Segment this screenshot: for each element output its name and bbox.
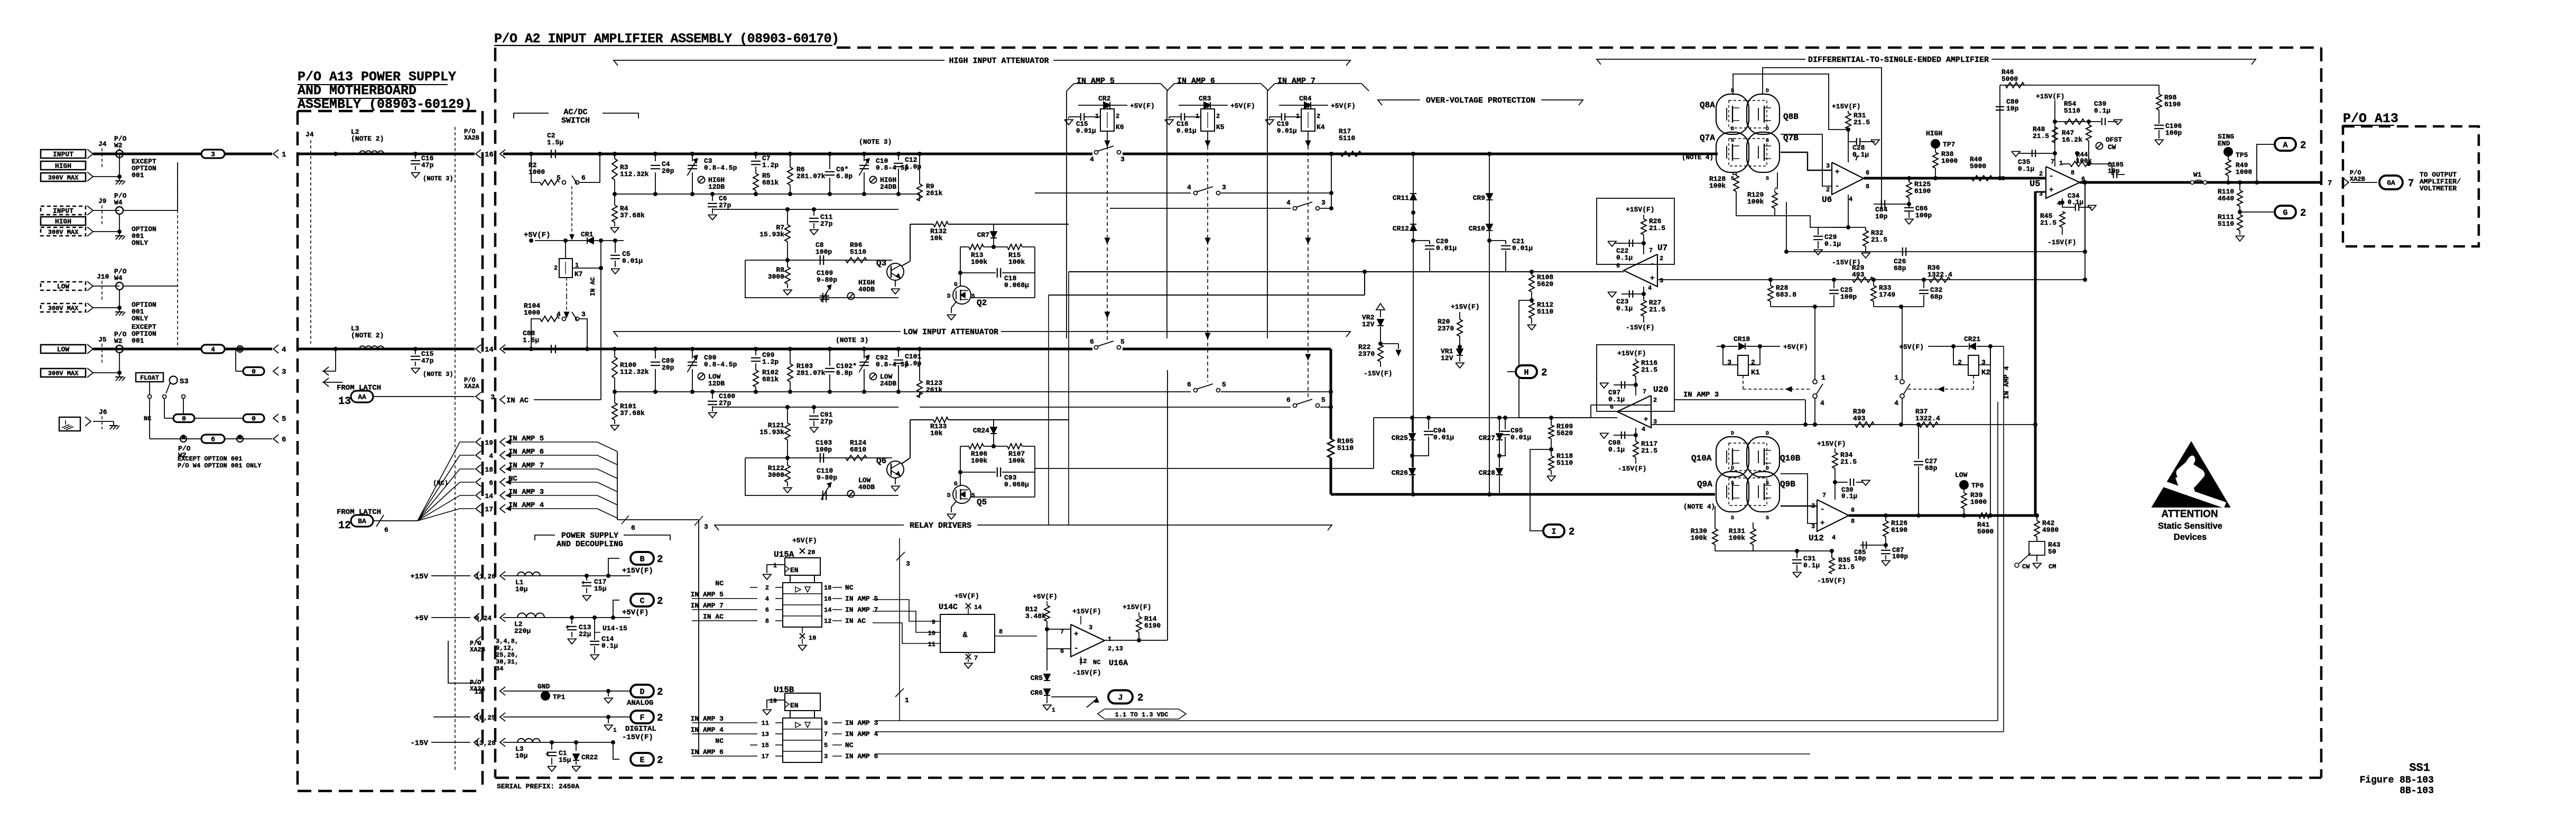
svg-text:FLOAT: FLOAT <box>140 374 159 382</box>
svg-text:6: 6 <box>765 606 769 614</box>
svg-text:1: 1 <box>1095 113 1099 120</box>
svg-text:+5V(F): +5V(F) <box>1130 102 1155 110</box>
svg-text:+5V(F): +5V(F) <box>622 609 648 617</box>
svg-text:D: D <box>947 293 951 300</box>
svg-text:8: 8 <box>999 628 1003 636</box>
svg-text:0.01μ: 0.01μ <box>1512 244 1533 252</box>
svg-text:S: S <box>1766 138 1769 144</box>
svg-text:6190: 6190 <box>2164 100 2181 108</box>
svg-text:0.8-4.5p: 0.8-4.5p <box>704 164 737 172</box>
svg-text:G: G <box>2283 208 2287 217</box>
svg-text:5110: 5110 <box>850 248 866 256</box>
svg-text:3: 3 <box>906 560 910 568</box>
svg-text:6: 6 <box>1090 338 1094 346</box>
svg-text:1: 1 <box>773 562 777 569</box>
svg-text:17: 17 <box>762 753 769 760</box>
svg-text:3: 3 <box>1321 199 1326 207</box>
svg-text:10p: 10p <box>2108 168 2120 175</box>
svg-text:7: 7 <box>1822 492 1826 499</box>
svg-text:7: 7 <box>824 731 828 738</box>
svg-text:AC/DC: AC/DC <box>563 108 587 117</box>
svg-text:TP5: TP5 <box>2236 151 2248 159</box>
svg-text:8: 8 <box>1866 183 1869 190</box>
svg-text:6: 6 <box>1851 507 1855 514</box>
svg-text:681k: 681k <box>762 375 779 383</box>
svg-text:100k: 100k <box>1747 198 1764 206</box>
svg-text:AND MOTHERBOARD: AND MOTHERBOARD <box>298 83 416 98</box>
svg-text:8: 8 <box>2071 169 2074 177</box>
svg-text:D: D <box>1731 88 1734 94</box>
svg-text:SERIAL PREFIX: 2450A: SERIAL PREFIX: 2450A <box>497 783 579 790</box>
svg-text:NC: NC <box>845 741 854 749</box>
svg-text:-: - <box>1074 645 1078 653</box>
svg-text:INPUT: INPUT <box>53 151 73 159</box>
svg-text:Q10B: Q10B <box>1780 454 1801 463</box>
svg-text:10p: 10p <box>2006 105 2019 113</box>
svg-text:3: 3 <box>1089 624 1092 631</box>
svg-text:6: 6 <box>1610 403 1614 411</box>
svg-text:CM: CM <box>2049 563 2056 570</box>
svg-text:GND: GND <box>538 683 550 691</box>
svg-text:ANALOG: ANALOG <box>627 699 653 707</box>
svg-text:TP7: TP7 <box>1943 141 1955 149</box>
svg-text:5110: 5110 <box>1337 444 1354 452</box>
svg-text:I: I <box>1551 527 1556 536</box>
svg-text:7: 7 <box>1649 247 1653 254</box>
svg-text:S: S <box>1766 176 1769 182</box>
svg-text:2: 2 <box>1569 526 1574 538</box>
svg-text:2: 2 <box>657 686 663 698</box>
svg-text:0.1μ: 0.1μ <box>1608 395 1625 403</box>
svg-text:-15V(F): -15V(F) <box>622 733 653 742</box>
svg-text:OVER-VOLTAGE PROTECTION: OVER-VOLTAGE PROTECTION <box>1426 96 1535 105</box>
svg-text:40DB: 40DB <box>858 483 875 491</box>
svg-text:CR27: CR27 <box>1479 434 1495 442</box>
svg-text:-15V(F): -15V(F) <box>1817 577 1846 585</box>
svg-text:12: 12 <box>1079 658 1087 665</box>
svg-text:27p: 27p <box>719 201 731 209</box>
svg-text:(NOTE 3): (NOTE 3) <box>423 371 453 378</box>
svg-text:493: 493 <box>1853 415 1866 422</box>
svg-text:11: 11 <box>928 641 935 648</box>
svg-text:1000: 1000 <box>2236 168 2252 176</box>
svg-text:D: D <box>1731 126 1734 132</box>
svg-text:+: + <box>2049 186 2053 195</box>
svg-text:100p: 100p <box>816 446 832 454</box>
svg-text:1: 1 <box>1894 374 1898 382</box>
svg-text:+5V(F): +5V(F) <box>1033 593 1058 601</box>
svg-text:1.5μ: 1.5μ <box>547 139 563 146</box>
svg-text:7: 7 <box>974 655 978 662</box>
svg-text:XA2B: XA2B <box>464 134 479 142</box>
svg-text:20p: 20p <box>662 167 674 175</box>
svg-text:3: 3 <box>1660 277 1663 284</box>
svg-text:3: 3 <box>704 523 708 531</box>
svg-text:+15V(F): +15V(F) <box>1451 303 1480 311</box>
svg-text:21.5: 21.5 <box>1649 306 1665 314</box>
svg-text:HIGH INPUT ATTENUATOR: HIGH INPUT ATTENUATOR <box>949 57 1049 66</box>
svg-text:8B-103: 8B-103 <box>2399 786 2434 796</box>
svg-text:LOW: LOW <box>57 346 70 354</box>
svg-text:3: 3 <box>1222 183 1226 191</box>
svg-text:12V: 12V <box>1362 320 1375 328</box>
svg-text:S: S <box>1731 516 1734 521</box>
svg-text:40DB: 40DB <box>858 286 875 293</box>
svg-text:ATTENTION: ATTENTION <box>2161 509 2218 520</box>
svg-text:P/O W4 OPTION 001 ONLY: P/O W4 OPTION 001 ONLY <box>178 462 262 470</box>
svg-text:ONLY: ONLY <box>132 315 148 323</box>
svg-text:IN AC: IN AC <box>845 617 866 625</box>
svg-text:18: 18 <box>485 466 493 474</box>
svg-text:IN AMP 3: IN AMP 3 <box>845 719 878 727</box>
svg-text:-15V: -15V <box>410 739 428 748</box>
svg-text:21.5: 21.5 <box>1641 447 1657 455</box>
svg-text:14: 14 <box>824 606 831 614</box>
svg-text:HIGH: HIGH <box>1926 130 1942 137</box>
svg-text:281.07k: 281.07k <box>796 172 826 180</box>
svg-text:21.5: 21.5 <box>1854 118 1870 126</box>
svg-text:7: 7 <box>1643 388 1646 395</box>
svg-text:J6: J6 <box>99 408 107 416</box>
svg-text:HIGH: HIGH <box>55 162 71 170</box>
svg-text:1: 1 <box>282 151 286 159</box>
svg-text:1.0p: 1.0p <box>905 360 921 367</box>
svg-text:+15V(F): +15V(F) <box>1617 349 1646 357</box>
svg-text:U12: U12 <box>1809 533 1824 543</box>
svg-text:CR25: CR25 <box>1392 434 1408 442</box>
svg-text:+5V(F): +5V(F) <box>1331 102 1356 110</box>
svg-text:VOLTMETER: VOLTMETER <box>2420 185 2457 192</box>
svg-text:CR4: CR4 <box>1299 95 1312 103</box>
svg-text:IN AC: IN AC <box>703 613 724 621</box>
svg-text:S: S <box>971 293 975 300</box>
svg-text:TP6: TP6 <box>1971 482 1984 490</box>
svg-text:2: 2 <box>657 712 663 724</box>
svg-text:RELAY DRIVERS: RELAY DRIVERS <box>910 521 971 530</box>
svg-text:IN AMP 7: IN AMP 7 <box>1277 77 1315 86</box>
svg-text:POWER SUPPLY: POWER SUPPLY <box>561 531 618 540</box>
svg-text:281.07k: 281.07k <box>796 369 826 377</box>
svg-text:+5V(F): +5V(F) <box>524 231 550 240</box>
svg-text:100k: 100k <box>2076 158 2092 165</box>
svg-text:2: 2 <box>1541 367 1547 379</box>
svg-text:13: 13 <box>338 395 351 408</box>
svg-text:-: - <box>1835 182 1839 191</box>
svg-text:0: 0 <box>182 415 186 423</box>
svg-text:112.32k: 112.32k <box>620 368 649 376</box>
svg-text:0: 0 <box>252 368 256 376</box>
svg-text:2: 2 <box>1751 358 1755 366</box>
svg-text:12: 12 <box>338 520 351 532</box>
svg-text:HIGH: HIGH <box>55 218 71 226</box>
svg-text:3,4,8,: 3,4,8, <box>496 638 518 645</box>
svg-text:4: 4 <box>1187 183 1191 191</box>
svg-text:G: G <box>954 282 958 288</box>
svg-text:DIFFERENTIAL-TO-SINGLE-ENDED A: DIFFERENTIAL-TO-SINGLE-ENDED AMPLIFIER <box>1808 56 1989 65</box>
svg-text:D: D <box>1731 466 1734 472</box>
svg-text:2: 2 <box>1116 113 1119 120</box>
svg-text:34: 34 <box>496 665 503 673</box>
svg-text:300V MAX: 300V MAX <box>48 305 79 312</box>
svg-text:6.8p: 6.8p <box>836 369 853 377</box>
svg-text:-: - <box>1820 505 1824 514</box>
svg-text:U14C: U14C <box>939 603 958 612</box>
svg-text:15: 15 <box>762 742 769 749</box>
svg-text:(NC): (NC) <box>433 480 448 487</box>
svg-text:17: 17 <box>485 505 493 513</box>
svg-text:100p: 100p <box>1892 553 1908 560</box>
svg-text:F: F <box>640 713 644 722</box>
svg-text:261k: 261k <box>926 386 942 394</box>
svg-text:Static Sensitive: Static Sensitive <box>2158 521 2222 531</box>
svg-text:A: A <box>2283 141 2287 150</box>
svg-text:Q6: Q6 <box>876 456 886 466</box>
svg-text:+15V(F): +15V(F) <box>622 567 653 575</box>
svg-text:300V MAX: 300V MAX <box>48 370 79 377</box>
svg-text:1322.4: 1322.4 <box>1928 271 1952 279</box>
svg-text:P/O A13 POWER SUPPLY: P/O A13 POWER SUPPLY <box>298 69 456 85</box>
svg-text:21.5: 21.5 <box>1838 563 1855 571</box>
svg-text:5: 5 <box>557 174 561 182</box>
svg-text:U6: U6 <box>1822 195 1832 205</box>
svg-text:0: 0 <box>252 415 256 423</box>
svg-text:1: 1 <box>1821 374 1826 382</box>
svg-text:0.1μ: 0.1μ <box>2068 199 2083 206</box>
svg-text:1: 1 <box>613 728 617 734</box>
svg-text:19: 19 <box>485 439 493 447</box>
svg-text:+15V(F): +15V(F) <box>2036 93 2065 100</box>
svg-text:IN AMP 5: IN AMP 5 <box>691 591 724 599</box>
svg-text:+: + <box>566 624 569 631</box>
svg-text:+5V(F): +5V(F) <box>792 537 817 545</box>
svg-text:Q3: Q3 <box>876 259 886 268</box>
svg-text:15μ: 15μ <box>559 756 571 764</box>
svg-text:C19: C19 <box>1277 121 1289 128</box>
svg-text:2: 2 <box>1826 186 1830 194</box>
svg-text:CR7: CR7 <box>977 231 989 239</box>
svg-text:5000: 5000 <box>2002 75 2018 83</box>
svg-text:5: 5 <box>1222 381 1226 389</box>
svg-text:2: 2 <box>2300 140 2306 151</box>
svg-text:IN AMP 3: IN AMP 3 <box>1683 391 1719 399</box>
svg-text:2: 2 <box>2039 170 2043 178</box>
svg-text:IN AC: IN AC <box>589 277 597 296</box>
svg-text:6190: 6190 <box>1891 526 1907 534</box>
svg-text:21.5: 21.5 <box>1641 366 1657 374</box>
svg-text:3000: 3000 <box>768 273 784 281</box>
svg-text:CW: CW <box>2022 563 2030 570</box>
svg-text:CR3: CR3 <box>1199 95 1211 103</box>
svg-text:2: 2 <box>765 584 769 592</box>
svg-text:5: 5 <box>824 742 828 749</box>
svg-text:IN AMP 7: IN AMP 7 <box>845 606 878 614</box>
svg-text:CR28: CR28 <box>1479 469 1495 477</box>
svg-text:+: + <box>545 751 549 758</box>
svg-text:NC: NC <box>1093 659 1100 666</box>
svg-text:0.1μ: 0.1μ <box>2018 165 2034 173</box>
svg-text:3: 3 <box>581 310 586 318</box>
svg-text:21.5: 21.5 <box>1649 224 1665 232</box>
svg-text:6: 6 <box>1616 262 1620 270</box>
svg-text:D: D <box>1766 126 1769 132</box>
svg-text:0.1μ: 0.1μ <box>601 642 618 650</box>
svg-text:300V MAX: 300V MAX <box>48 228 79 236</box>
svg-text:+: + <box>581 579 585 587</box>
svg-text:5000: 5000 <box>1970 162 1986 170</box>
svg-text:+: + <box>1820 519 1824 528</box>
svg-text:5: 5 <box>1321 396 1326 404</box>
svg-text:D: D <box>1766 431 1769 437</box>
svg-text:LOW: LOW <box>57 283 70 291</box>
svg-text:21.5: 21.5 <box>1840 458 1857 466</box>
svg-text:CR5: CR5 <box>1031 674 1043 682</box>
svg-text:U7: U7 <box>1657 243 1667 253</box>
svg-text:21.5: 21.5 <box>2033 132 2049 140</box>
svg-text:1.2p: 1.2p <box>762 161 779 169</box>
svg-text:4: 4 <box>1820 399 1824 407</box>
svg-text:+5V: +5V <box>415 614 429 623</box>
svg-text:0.1μ: 0.1μ <box>1608 446 1625 454</box>
svg-text:21.5: 21.5 <box>1871 236 1887 244</box>
svg-text:0.01μ: 0.01μ <box>1433 434 1454 441</box>
svg-text:4: 4 <box>1648 284 1652 292</box>
svg-text:4: 4 <box>489 452 493 460</box>
svg-text:U14-15: U14-15 <box>603 624 627 632</box>
svg-text:0.8-4.5p: 0.8-4.5p <box>704 361 737 369</box>
svg-text:W4: W4 <box>114 274 123 282</box>
svg-text:K7: K7 <box>574 270 583 278</box>
svg-text:W2: W2 <box>114 142 123 150</box>
svg-text:DIGITAL: DIGITAL <box>625 725 656 733</box>
svg-text:13: 13 <box>762 731 769 738</box>
svg-text:2: 2 <box>657 554 663 565</box>
svg-text:683.8: 683.8 <box>1776 291 1796 299</box>
svg-text:ASSEMBLY (08903-60129): ASSEMBLY (08903-60129) <box>298 97 472 112</box>
svg-text:+: + <box>1074 630 1078 639</box>
svg-text:4: 4 <box>1090 155 1094 163</box>
svg-text:100k: 100k <box>1008 457 1025 465</box>
svg-text:220μ: 220μ <box>514 627 531 635</box>
svg-text:3000: 3000 <box>768 471 784 479</box>
svg-text:2: 2 <box>1317 113 1320 120</box>
svg-text:37.68k: 37.68k <box>620 409 645 417</box>
svg-text:C16: C16 <box>1176 121 1189 128</box>
svg-text:6: 6 <box>631 524 635 532</box>
svg-text:0.01μ: 0.01μ <box>1511 434 1531 441</box>
svg-text:+15V(F): +15V(F) <box>1123 603 1152 611</box>
svg-text:1000: 1000 <box>1970 498 1987 506</box>
svg-text:1.5μ: 1.5μ <box>523 336 539 344</box>
svg-text:15.93k: 15.93k <box>759 428 784 436</box>
svg-text:5110: 5110 <box>1556 459 1573 467</box>
svg-text:1000: 1000 <box>1941 157 1958 165</box>
svg-text:9: 9 <box>824 720 828 727</box>
svg-text:C15: C15 <box>1076 121 1088 128</box>
svg-text:112.32k: 112.32k <box>620 170 649 178</box>
svg-text:E: E <box>640 756 644 765</box>
svg-text:-15V(F): -15V(F) <box>1364 370 1393 378</box>
svg-text:100k: 100k <box>971 457 987 465</box>
svg-text:100p: 100p <box>1915 211 1932 219</box>
svg-text:2: 2 <box>2300 207 2306 219</box>
svg-text:3: 3 <box>1120 155 1125 163</box>
svg-text:TP1: TP1 <box>553 693 566 701</box>
svg-text:LOW INPUT ATTENUATOR: LOW INPUT ATTENUATOR <box>903 328 998 337</box>
svg-text:0.01μ: 0.01μ <box>1277 127 1297 135</box>
svg-text:CR1: CR1 <box>581 231 594 238</box>
svg-text:1: 1 <box>1108 636 1111 643</box>
svg-text:7: 7 <box>2328 179 2332 188</box>
svg-text:4: 4 <box>765 595 769 603</box>
svg-text:Q7A: Q7A <box>1700 133 1715 143</box>
svg-text:IN AMP 7: IN AMP 7 <box>691 602 724 610</box>
svg-text:0.1μ: 0.1μ <box>1824 240 1841 248</box>
svg-text:ONLY: ONLY <box>132 239 148 247</box>
svg-text:CR2: CR2 <box>1098 95 1111 103</box>
svg-text:SS1: SS1 <box>2409 761 2430 775</box>
svg-text:6: 6 <box>1286 396 1291 404</box>
svg-text:U20: U20 <box>1653 385 1669 394</box>
svg-text:11: 11 <box>762 720 769 727</box>
svg-text:CR9: CR9 <box>1473 194 1486 202</box>
svg-text:AA: AA <box>358 393 366 401</box>
svg-text:0.1μ: 0.1μ <box>1841 493 1857 500</box>
svg-text:K6: K6 <box>1116 123 1124 131</box>
svg-text:25,26,: 25,26, <box>496 651 518 659</box>
svg-text:2: 2 <box>1958 358 1962 366</box>
svg-text:18: 18 <box>824 584 831 592</box>
svg-text:W2: W2 <box>114 337 123 345</box>
svg-text:-15V(F): -15V(F) <box>2047 238 2077 246</box>
svg-text:XA2A: XA2A <box>464 383 480 390</box>
svg-text:(NOTE 4): (NOTE 4) <box>1682 154 1713 161</box>
svg-text:D: D <box>1731 431 1734 437</box>
svg-text:2: 2 <box>1660 255 1663 262</box>
svg-text:Devices: Devices <box>2174 532 2207 542</box>
svg-text:2: 2 <box>1653 397 1657 404</box>
svg-text:K5: K5 <box>1216 123 1225 131</box>
svg-text:4: 4 <box>1642 426 1645 433</box>
svg-text:SWITCH: SWITCH <box>561 116 590 125</box>
svg-text:EXCEPT OPTION 001: EXCEPT OPTION 001 <box>178 455 242 463</box>
svg-text:+15V(F): +15V(F) <box>1072 608 1101 615</box>
svg-text:30,31,: 30,31, <box>496 658 518 666</box>
svg-text:CR24: CR24 <box>973 427 989 435</box>
svg-text:K2: K2 <box>1981 369 1990 377</box>
svg-text:2: 2 <box>1216 113 1220 120</box>
svg-text:IN AMP 4: IN AMP 4 <box>845 730 878 738</box>
svg-text:3.48k: 3.48k <box>1025 612 1046 620</box>
svg-text:8: 8 <box>1851 518 1855 525</box>
svg-text:3: 3 <box>490 393 495 402</box>
svg-text:1.0p: 1.0p <box>905 163 921 171</box>
svg-text:0.1μ: 0.1μ <box>1803 562 1820 569</box>
svg-text:Q5: Q5 <box>977 498 987 507</box>
svg-text:BA: BA <box>358 518 366 526</box>
svg-text:10k: 10k <box>930 234 943 242</box>
svg-text:300V MAX: 300V MAX <box>48 174 79 181</box>
svg-text:100k: 100k <box>1709 182 1726 190</box>
svg-text:IN AMP 5: IN AMP 5 <box>1077 77 1115 86</box>
svg-text:K1: K1 <box>1751 369 1760 377</box>
svg-text:681k: 681k <box>762 179 779 187</box>
svg-text:0.01μ: 0.01μ <box>1076 127 1096 135</box>
svg-text:-: - <box>1650 260 1654 269</box>
svg-text:6.8p: 6.8p <box>836 172 853 180</box>
svg-text:Q10A: Q10A <box>1691 454 1712 463</box>
svg-text:-15V(F): -15V(F) <box>1618 465 1647 473</box>
svg-text:NC: NC <box>144 415 151 422</box>
